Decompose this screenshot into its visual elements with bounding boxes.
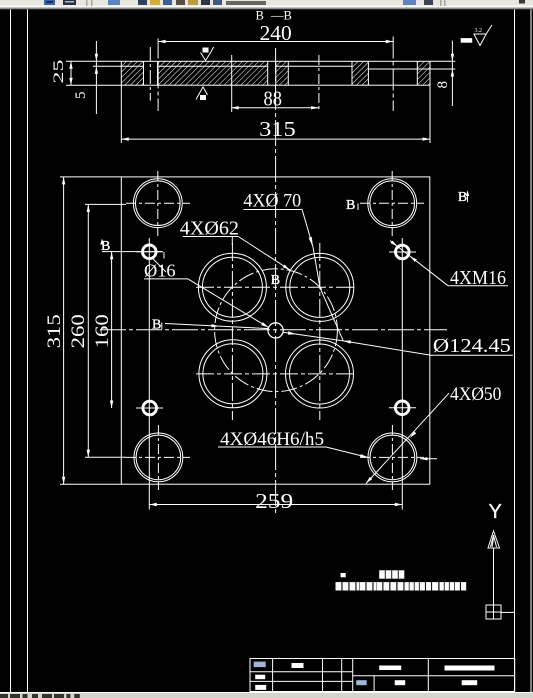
- dimension 5: [73, 41, 98, 114]
- dimension 160 left: [92, 252, 113, 408]
- bolt circle dia 124.45: [215, 269, 338, 392]
- svg-text:3.2: 3.2: [475, 28, 483, 34]
- hatch region 3: [276, 61, 289, 85]
- big holes row centerlines: [196, 286, 357, 288]
- label 4X dia70: [243, 192, 320, 288]
- label 4XM16: [390, 241, 508, 289]
- hatch region 2: [158, 61, 268, 85]
- right extension line for 8: [430, 60, 455, 62]
- M16 hole TL: [136, 245, 163, 259]
- corner hole BL: [126, 425, 190, 490]
- surface finish top-right 3.2: [461, 25, 492, 46]
- svg-text:B: B: [271, 273, 280, 288]
- svg-text:4XØ 70: 4XØ 70: [243, 192, 301, 212]
- center hole dia16: [268, 323, 283, 338]
- svg-text:Ø16: Ø16: [144, 261, 176, 281]
- svg-text:260: 260: [68, 314, 89, 348]
- dimension 88: [231, 86, 318, 110]
- window right border line: [530, 10, 532, 693]
- main horizontal centerline: [100, 329, 447, 331]
- svg-text:315: 315: [44, 314, 65, 348]
- dimension 315 of section: [121, 85, 430, 143]
- svg-text:Ø124.45: Ø124.45: [433, 335, 511, 357]
- main vertical centerline: [275, 48, 277, 515]
- drawing sheet frame right inner line: [514, 10, 516, 693]
- centerline x=158 (240 dim extension / corner hole column): [157, 39, 159, 112]
- UCS icon: [486, 501, 515, 619]
- plate square: [121, 177, 430, 484]
- dimension 260 left: [68, 204, 126, 457]
- hatch region 1: [121, 61, 143, 85]
- svg-text:315: 315: [259, 117, 296, 141]
- toolbar strip (cut off): [0, 0, 533, 9]
- label 4X dia50: [366, 384, 501, 484]
- section line B at left: [100, 239, 162, 255]
- dimension 240: [158, 21, 393, 45]
- section mark B top right corner area: [346, 198, 358, 213]
- svg-text:B: B: [458, 190, 467, 205]
- section mark B right with up arrow: [458, 190, 469, 205]
- dimension 315 left: [44, 177, 121, 484]
- section line B1 mid-left: [152, 318, 269, 333]
- M16 column centerlines long: [148, 238, 150, 510]
- label 4X dia62: [180, 219, 290, 270]
- dimension 25: [51, 60, 73, 86]
- hole edge verticals: [144, 61, 418, 85]
- dimension 259 bottom: [149, 489, 402, 513]
- big hole BR: [286, 340, 354, 408]
- dimension 8 right: [435, 41, 454, 106]
- technical requirements text (simulated blocks): [336, 570, 467, 590]
- svg-text:88: 88: [264, 86, 282, 110]
- label dia124.45: [320, 288, 513, 357]
- surface finish symbol top: [201, 47, 214, 61]
- drawing sheet frame left outer line: [10, 10, 12, 693]
- corner hole TR: [360, 171, 424, 236]
- svg-text:160: 160: [92, 314, 113, 348]
- svg-text:B: B: [346, 198, 355, 213]
- label dia16: [144, 252, 269, 328]
- M16 hole TR: [389, 245, 416, 259]
- big hole TL dia62/70: [198, 253, 266, 321]
- hatch region 5: [417, 61, 430, 85]
- left extension lines for 25/5: [66, 61, 121, 85]
- corner hole BR: [360, 425, 424, 490]
- svg-text:259: 259: [255, 489, 293, 513]
- big hole TR: [286, 253, 354, 321]
- bottom tab strip: [0, 692, 533, 698]
- section line right part through center: [283, 331, 343, 341]
- section title B - B: [256, 8, 292, 22]
- svg-text:5: 5: [73, 92, 89, 100]
- svg-text:240: 240: [260, 21, 292, 45]
- big hole BL: [199, 340, 267, 408]
- corner hole TL: [126, 171, 190, 236]
- plate outline: [121, 61, 430, 85]
- svg-text:4XØ50: 4XØ50: [450, 384, 501, 405]
- centerline x=393.2: [392, 37, 394, 112]
- M16 hole BL: [136, 401, 163, 415]
- drawing sheet frame left inner line: [27, 10, 29, 693]
- svg-text:B: B: [152, 318, 161, 333]
- centerline small hole left x=150.3: [149, 47, 151, 101]
- title block: [250, 659, 515, 692]
- M16 hole BR: [389, 401, 416, 415]
- svg-text:Y: Y: [489, 501, 502, 523]
- label 4X dia46H6/h5: [218, 429, 368, 458]
- surface finish symbol bottom: [196, 87, 208, 100]
- svg-text:8: 8: [435, 81, 451, 89]
- big holes column centerlines: [231, 243, 233, 420]
- internal step line y=66.3: [121, 65, 352, 67]
- centerline x=319 section part: [318, 55, 320, 112]
- centerline x=232 section part: [231, 55, 233, 112]
- svg-text:25: 25: [51, 60, 67, 84]
- internal step line y=69 right: [368, 68, 455, 70]
- hatch region 4: [352, 61, 368, 85]
